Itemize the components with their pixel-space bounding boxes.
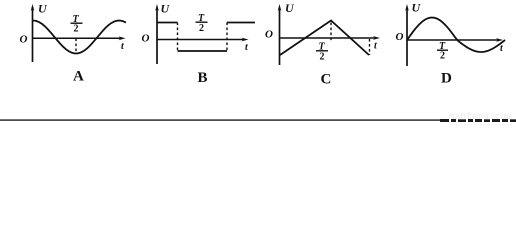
graph A dashed line at T/2 (75, 39, 77, 54)
svg-text:O: O (396, 31, 404, 43)
bottom rule (0, 119, 441, 121)
graph B x-axis (157, 38, 249, 42)
graph A cosine curve (33, 21, 126, 54)
svg-text:O: O (20, 34, 28, 46)
svg-text:t: t (121, 41, 125, 52)
graph B T/2 label (196, 13, 208, 34)
svg-text:2: 2 (440, 51, 445, 62)
graph B dashed transition 2 (226, 23, 228, 52)
svg-text:2: 2 (74, 24, 79, 35)
graph C dashed line at peak (330, 23, 332, 43)
svg-text:t: t (374, 41, 378, 52)
svg-text:U: U (38, 2, 48, 16)
svg-text:t: t (245, 42, 249, 53)
graph A x-axis (33, 36, 126, 40)
clipped bold text along bottom edge (440, 119, 516, 122)
graph A T/2 label (71, 14, 83, 35)
graph B dashed transition 1 (177, 23, 179, 52)
svg-text:O: O (265, 28, 273, 40)
svg-text:A: A (73, 69, 84, 85)
svg-text:U: U (285, 1, 295, 15)
graph C dashed line at T (369, 39, 371, 55)
svg-text:2: 2 (320, 52, 325, 63)
graph D sine curve (407, 18, 505, 53)
svg-text:O: O (142, 33, 150, 45)
graph D x-axis (407, 38, 503, 42)
svg-text:U: U (412, 1, 422, 15)
graph B square wave high segment 2 (227, 22, 255, 24)
graph B y-axis (155, 4, 159, 64)
svg-text:2: 2 (199, 23, 204, 34)
svg-text:B: B (198, 70, 208, 86)
graph B square wave low segment (178, 50, 228, 52)
graph C triangle wave (280, 21, 369, 56)
graph A y-axis (31, 4, 35, 62)
graph B square wave high segment 1 (157, 22, 178, 24)
svg-text:C: C (321, 72, 332, 88)
graph D y-axis (405, 4, 409, 66)
svg-text:U: U (161, 1, 171, 15)
graph C y-axis (278, 4, 282, 65)
graph D T/2 label (437, 41, 448, 62)
svg-text:D: D (441, 71, 452, 87)
svg-text:t: t (500, 43, 504, 54)
graph C T/2 label (316, 42, 328, 63)
graph C x-axis (280, 36, 381, 40)
